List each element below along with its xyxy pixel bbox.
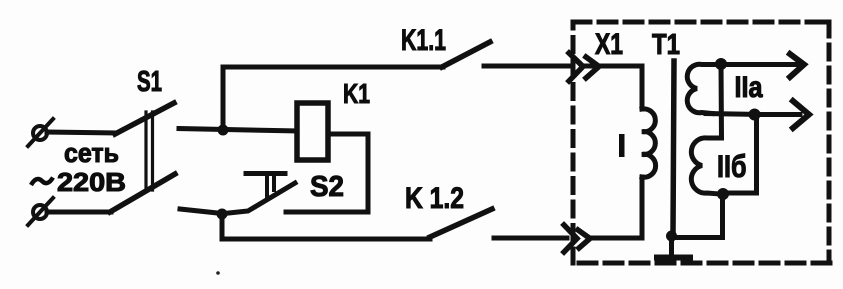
connector X1 lower pin chevrons xyxy=(564,225,590,252)
wire S1 upper fixed contact to node A and relay coil xyxy=(179,129,297,132)
terminal upper (mains input) xyxy=(28,119,53,146)
button S2 actuator xyxy=(246,174,285,197)
output arrow 2 xyxy=(760,101,809,128)
node IIa top junction dot xyxy=(715,58,727,70)
transformer T1 primary winding I xyxy=(642,109,656,177)
svg-text:220В: 220В xyxy=(57,167,126,197)
label ~ xyxy=(31,178,53,186)
svg-text:T1: T1 xyxy=(652,29,680,61)
secondary winding IIb xyxy=(691,138,721,194)
svg-text:S2: S2 xyxy=(310,171,344,203)
wire relay coil K1 right lead xyxy=(328,132,368,137)
node B junction dot xyxy=(217,209,228,220)
wire K1.2 fixed contact to X1 lower pin xyxy=(494,236,567,241)
svg-text:сеть: сеть xyxy=(64,138,119,168)
relay coil K1 xyxy=(297,103,328,160)
wire IIb bottom node down to ground node xyxy=(672,194,723,238)
wire IIa chord (top node down to IIb top) xyxy=(719,64,725,138)
label I (primary) xyxy=(619,134,625,157)
wire primary bottom lead to X1 lower pin xyxy=(591,177,642,238)
svg-text:K1: K1 xyxy=(343,78,370,109)
svg-text:S1: S1 xyxy=(137,66,162,98)
contact K1.1 blade xyxy=(442,42,490,67)
switch S1 upper blade xyxy=(115,103,174,134)
contact K1.2 blade xyxy=(430,209,492,237)
output arrow 1 xyxy=(727,54,804,77)
wire node A up to top rail xyxy=(223,67,443,130)
wire terminal upper to S1 xyxy=(47,132,116,133)
wire S2 fixed contact up to relay coil right side xyxy=(286,134,368,212)
transformer T1 core xyxy=(673,61,674,233)
switch S1 mechanical link xyxy=(146,112,153,190)
switch S1 lower blade xyxy=(110,174,175,212)
svg-text:X1: X1 xyxy=(595,28,623,61)
svg-text:K 1.2: K 1.2 xyxy=(405,182,464,215)
ground xyxy=(657,240,690,258)
connector X1 upper pin chevrons xyxy=(569,53,599,81)
svg-text:IIб: IIб xyxy=(717,148,747,184)
secondary winding IIa xyxy=(687,64,721,113)
middle tap wire xyxy=(706,114,760,115)
enclosure dashed box xyxy=(571,22,830,263)
wire S1 lower fixed contact to node B xyxy=(180,209,222,214)
svg-text:K1.1: K1.1 xyxy=(401,24,446,57)
button S2 blade xyxy=(224,183,295,214)
node IIb bottom junction dot xyxy=(717,188,729,200)
speck xyxy=(216,271,220,275)
node middle tap junction dot xyxy=(749,109,761,121)
wire terminal lower to S1 xyxy=(47,210,111,215)
wire X1 upper pin to primary winding top xyxy=(584,66,642,109)
node ground junction dot xyxy=(666,231,677,242)
wire middle tap node down to IIb bottom node xyxy=(723,115,757,194)
node A junction dot xyxy=(218,125,229,136)
svg-text:IIа: IIа xyxy=(735,71,763,104)
terminal lower (mains input) xyxy=(28,198,53,225)
wire K1.1 fixed contact to X1 xyxy=(484,64,572,69)
wire node B down and bottom rail xyxy=(222,214,430,239)
